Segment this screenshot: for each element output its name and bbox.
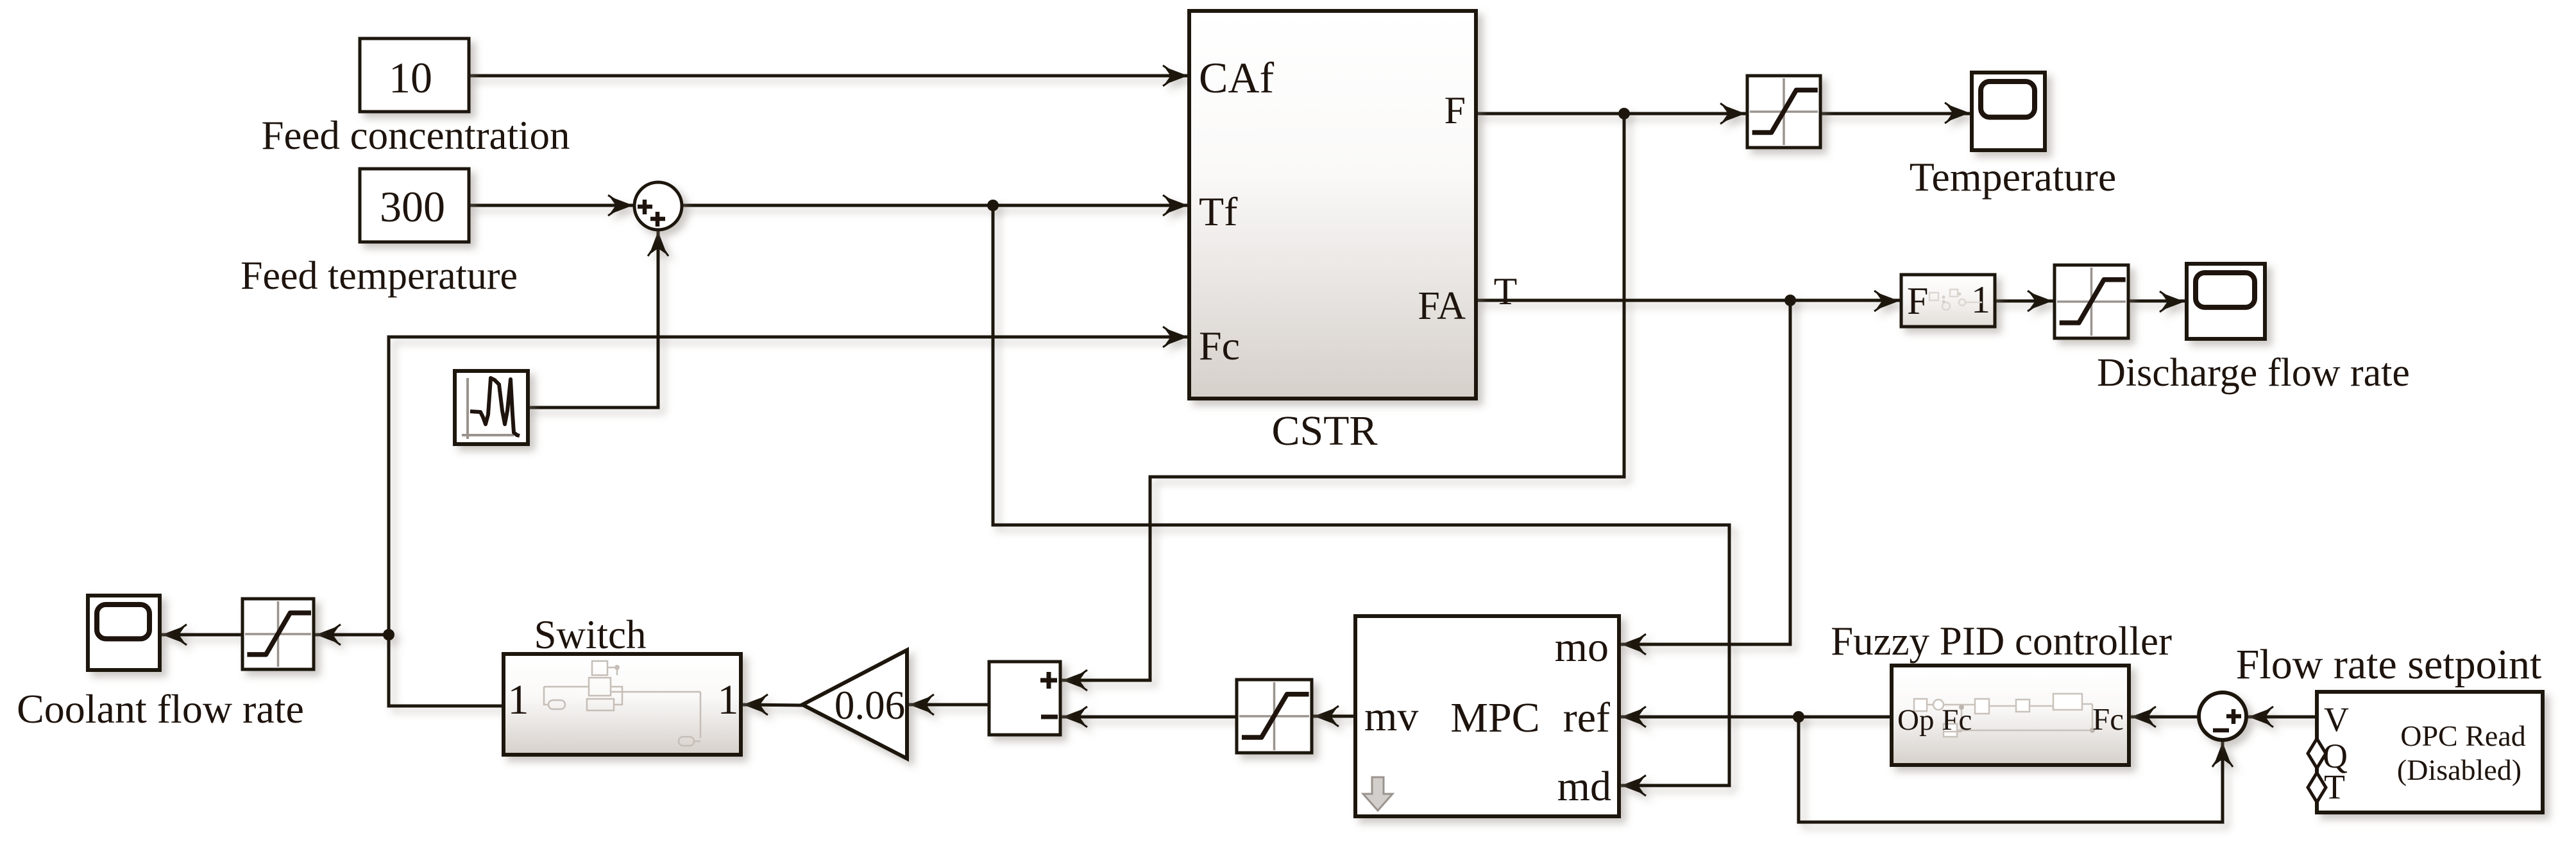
svg-text:md: md (1557, 763, 1611, 810)
wire T branch to MPC mo (1621, 300, 1790, 655)
wire saturation to coolant scope (162, 624, 242, 645)
constant block 300 (360, 169, 469, 242)
transfer function block F 1 (1901, 275, 1995, 327)
MPC port label ref (1563, 694, 1610, 741)
wire signal builder to sum1 bottom (528, 231, 668, 408)
junction dot on F wire (1618, 108, 1630, 119)
junction dot on Op wire (1793, 711, 1804, 723)
MPC block (1355, 616, 1619, 816)
wire OPC V to sum circle (2248, 707, 2317, 727)
svg-text:Feed temperature: Feed temperature (241, 254, 518, 298)
svg-text:Temperature: Temperature (1910, 154, 2116, 200)
wire switch output to junction (389, 635, 504, 706)
svg-text:mo: mo (1555, 624, 1609, 671)
junction dot on Tf wire (987, 200, 999, 211)
svg-text:0.06: 0.06 (835, 683, 905, 728)
Fuzzy port label Fc (2092, 701, 2124, 737)
svg-text:CSTR: CSTR (1271, 408, 1377, 454)
wire Op feedback to sum circle bottom (1799, 717, 2233, 822)
svg-text:Tf: Tf (1199, 189, 1238, 234)
wire 10 to CAf (469, 65, 1188, 86)
OPC port label T (2324, 768, 2345, 806)
CSTR port label Tf (1199, 189, 1238, 234)
label Fuzzy PID controller (1831, 619, 2172, 664)
wire MPC mv to saturation3 (1314, 706, 1355, 726)
gain block 0.06 (802, 650, 907, 759)
wire 300 to sum1 (469, 195, 633, 216)
saturation block 1 (temperature) (1747, 76, 1820, 148)
sum junction circle 1 (634, 182, 682, 230)
wire sum2 to gain (909, 694, 989, 715)
svg-text:MPC: MPC (1450, 694, 1539, 741)
svg-text:Feed concentration: Feed concentration (261, 113, 570, 158)
svg-text:Fc: Fc (1199, 323, 1240, 368)
wire F branch to sum2 plus (1062, 114, 1624, 691)
svg-text:(Disabled): (Disabled) (2397, 753, 2521, 786)
Switch subsystem block (504, 654, 741, 755)
svg-text:CAf: CAf (1199, 53, 1274, 102)
CSTR block (1189, 11, 1476, 399)
OPC port label V (2324, 700, 2349, 739)
MPC label (1450, 694, 1539, 741)
svg-text:1: 1 (1971, 279, 1990, 321)
svg-text:T: T (1494, 270, 1518, 313)
MPC port label mv (1364, 693, 1418, 740)
junction dot on T wire (1784, 295, 1796, 306)
svg-text:Flow rate setpoint: Flow rate setpoint (2236, 641, 2542, 688)
svg-text:OPC Read: OPC Read (2400, 719, 2526, 752)
saturation block 3 (mv) (1237, 680, 1312, 753)
saturation block 4 (coolant) (242, 599, 314, 669)
OPC disabled diamond markers (2308, 739, 2326, 802)
label Flow rate setpoint (2236, 641, 2542, 688)
wire fuzzy Op to MPC ref (1621, 707, 1892, 727)
CSTR port label FA (1418, 284, 1466, 328)
CSTR port label CAf (1199, 53, 1274, 102)
wire saturation3 to sum2 minus (1062, 707, 1237, 727)
wire FA to transfer block (1476, 291, 1899, 311)
svg-text:Op Fc: Op Fc (1897, 703, 1972, 737)
svg-text:FA: FA (1418, 284, 1466, 328)
svg-text:Fuzzy PID controller: Fuzzy PID controller (1831, 619, 2172, 664)
svg-text:ref: ref (1563, 694, 1610, 741)
svg-text:Switch: Switch (534, 612, 646, 657)
signal builder block (455, 371, 528, 444)
svg-text:F: F (1907, 280, 1928, 322)
wire junction to saturation coolant (316, 624, 389, 645)
wire transfer block to saturation2 (1995, 291, 2053, 311)
constant block 10 (360, 39, 469, 112)
Fuzzy PID controller block (1892, 666, 2129, 765)
svg-text:1: 1 (718, 676, 739, 723)
Fuzzy port label Op Fc (1897, 703, 1972, 737)
svg-text:V: V (2324, 700, 2349, 739)
OPC port label Q (2323, 737, 2348, 775)
label Temperature (1910, 154, 2116, 200)
wire saturation1 to temperature scope (1820, 103, 1970, 123)
svg-text:Coolant flow rate: Coolant flow rate (17, 686, 304, 732)
junction dot coolant (383, 629, 394, 640)
svg-text:Discharge flow rate: Discharge flow rate (2097, 351, 2410, 395)
sum block (plus minus) (989, 662, 1060, 735)
svg-text:300: 300 (380, 182, 445, 231)
wire saturation2 to discharge scope (2128, 291, 2185, 312)
MPC port label mo (1555, 624, 1609, 671)
discharge scope (2187, 264, 2265, 339)
svg-text:10: 10 (389, 53, 432, 102)
label Feed concentration (261, 113, 570, 158)
label Feed temperature (241, 254, 518, 298)
label Switch (534, 612, 646, 657)
OPC Read block (2317, 692, 2543, 812)
wire coolant junction to Fc (389, 327, 1188, 633)
label Coolant flow rate (17, 686, 304, 732)
OPC text (2397, 719, 2526, 786)
wire sum1 to Tf (682, 195, 1188, 216)
svg-text:mv: mv (1364, 693, 1418, 740)
saturation block 2 (discharge) (2055, 265, 2128, 338)
coolant scope (88, 596, 160, 670)
signal label T (1494, 270, 1518, 313)
svg-text:Fc: Fc (2092, 701, 2124, 737)
CSTR port label F (1445, 89, 1466, 132)
CSTR port label Fc (1199, 323, 1240, 368)
label Discharge flow rate (2097, 351, 2410, 395)
svg-text:F: F (1445, 89, 1466, 132)
sum circle 2 (2199, 692, 2246, 740)
wire sum circle to fuzzy Fc (2131, 707, 2199, 727)
wire Tf branch to MPC md (993, 205, 1729, 796)
wire gain to switch (743, 694, 802, 715)
svg-text:1: 1 (508, 676, 529, 723)
MPC port label md (1557, 763, 1611, 810)
temperature scope (1972, 73, 2045, 150)
wire F output to saturation1 (1476, 103, 1745, 124)
label CSTR (1271, 408, 1377, 454)
